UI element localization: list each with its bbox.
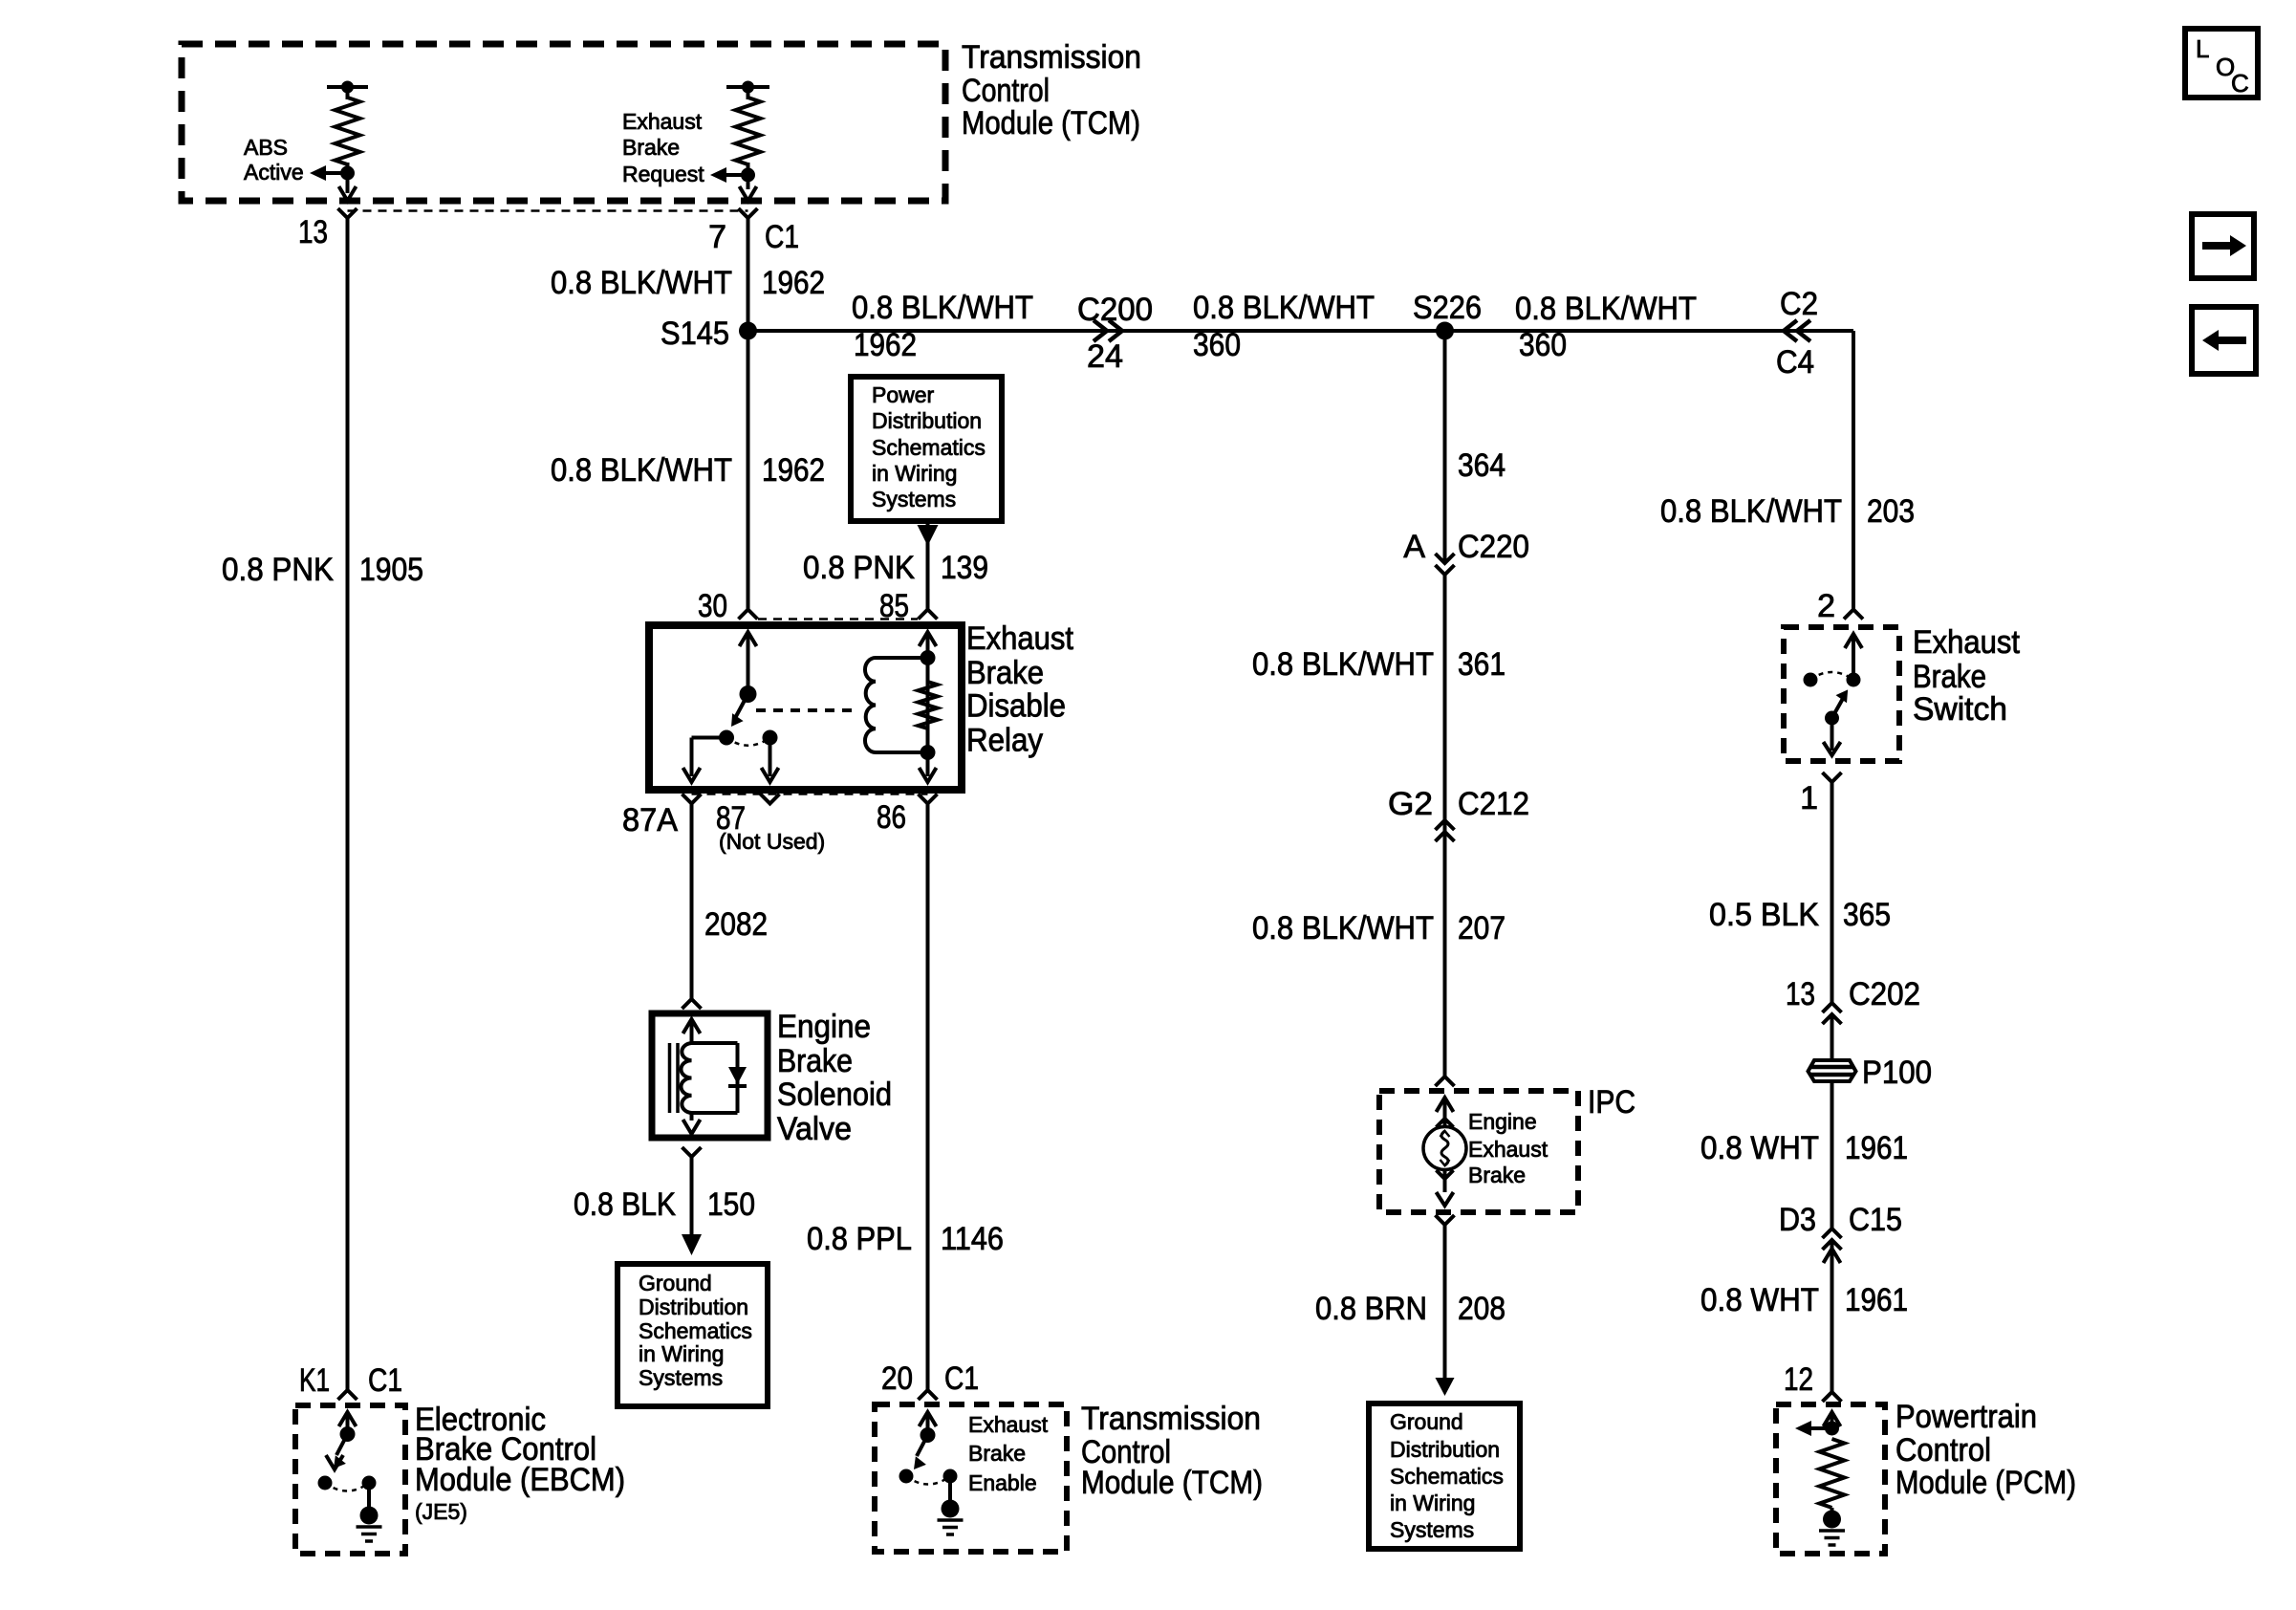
svg-text:Systems: Systems [872, 487, 956, 511]
svg-text:0.8 PNK: 0.8 PNK [803, 550, 915, 586]
svg-text:150: 150 [707, 1186, 755, 1223]
svg-text:208: 208 [1458, 1291, 1505, 1327]
svg-text:360: 360 [1519, 327, 1567, 363]
svg-text:S145: S145 [661, 315, 729, 352]
svg-text:Brake: Brake [622, 135, 680, 160]
svg-text:ABS: ABS [244, 135, 288, 160]
svg-text:364: 364 [1458, 447, 1505, 484]
svg-text:1962: 1962 [762, 452, 825, 489]
svg-text:Powertrain: Powertrain [1895, 1399, 2037, 1435]
svg-text:207: 207 [1458, 910, 1505, 946]
svg-text:A: A [1403, 529, 1425, 565]
svg-text:Brake: Brake [1913, 659, 1986, 695]
svg-text:0.8 BLK/WHT: 0.8 BLK/WHT [1515, 291, 1697, 327]
svg-text:Module (PCM): Module (PCM) [1895, 1465, 2076, 1501]
svg-text:Schematics: Schematics [1390, 1464, 1504, 1489]
svg-text:0.8 BLK/WHT: 0.8 BLK/WHT [1660, 493, 1842, 530]
svg-text:C4: C4 [1776, 344, 1814, 381]
svg-text:24: 24 [1087, 338, 1123, 375]
svg-text:(JE5): (JE5) [415, 1499, 467, 1524]
svg-text:Enable: Enable [968, 1470, 1037, 1495]
svg-text:0.8 WHT: 0.8 WHT [1700, 1130, 1819, 1166]
svg-text:Systems: Systems [639, 1365, 723, 1390]
svg-text:Brake: Brake [1468, 1163, 1526, 1187]
svg-text:Ground: Ground [1390, 1409, 1463, 1434]
svg-text:C1: C1 [368, 1362, 402, 1399]
svg-text:Control: Control [1895, 1432, 1991, 1469]
svg-text:139: 139 [941, 550, 988, 586]
svg-text:1962: 1962 [854, 327, 917, 363]
svg-text:0.8 BLK/WHT: 0.8 BLK/WHT [551, 265, 732, 301]
svg-text:C212: C212 [1458, 786, 1529, 822]
svg-text:Distribution: Distribution [1390, 1437, 1500, 1462]
svg-text:Systems: Systems [1390, 1517, 1474, 1542]
svg-text:K1: K1 [299, 1362, 330, 1399]
svg-text:0.8 PPL: 0.8 PPL [807, 1221, 912, 1257]
svg-text:1962: 1962 [762, 265, 825, 301]
svg-text:C220: C220 [1458, 529, 1529, 565]
svg-text:Active: Active [244, 160, 304, 185]
svg-text:0.8 BLK/WHT: 0.8 BLK/WHT [551, 452, 732, 489]
svg-text:IPC: IPC [1588, 1084, 1635, 1120]
svg-text:S226: S226 [1413, 290, 1482, 326]
svg-text:1961: 1961 [1845, 1130, 1908, 1166]
svg-text:0.8 BLK/WHT: 0.8 BLK/WHT [1193, 290, 1375, 326]
svg-text:0.8 BLK/WHT: 0.8 BLK/WHT [1252, 910, 1434, 946]
svg-text:Module (TCM): Module (TCM) [962, 105, 1140, 141]
svg-text:C15: C15 [1849, 1202, 1902, 1238]
svg-text:Brake: Brake [968, 1441, 1026, 1466]
svg-text:Exhaust: Exhaust [968, 1412, 1049, 1437]
svg-text:13: 13 [1786, 976, 1815, 1012]
svg-text:12: 12 [1784, 1361, 1813, 1398]
svg-text:0.8 PNK: 0.8 PNK [222, 552, 334, 588]
svg-text:Exhaust: Exhaust [1468, 1137, 1549, 1162]
svg-text:Engine: Engine [1468, 1109, 1537, 1134]
svg-text:13: 13 [298, 214, 328, 250]
svg-text:Brake: Brake [777, 1043, 853, 1079]
svg-text:1961: 1961 [1845, 1282, 1908, 1318]
svg-text:Module (TCM): Module (TCM) [1081, 1465, 1263, 1501]
svg-text:Switch: Switch [1913, 691, 2007, 728]
svg-text:P100: P100 [1862, 1055, 1932, 1091]
svg-text:1: 1 [1800, 780, 1818, 816]
svg-text:Distribution: Distribution [872, 408, 982, 433]
svg-text:Disable: Disable [966, 688, 1066, 725]
svg-text:in Wiring: in Wiring [639, 1341, 724, 1366]
svg-text:L: L [2196, 34, 2209, 63]
svg-text:0.5 BLK: 0.5 BLK [1709, 897, 1819, 933]
svg-text:C: C [2231, 69, 2249, 98]
svg-text:1905: 1905 [359, 552, 423, 588]
svg-text:Engine: Engine [777, 1009, 871, 1045]
svg-text:(Not Used): (Not Used) [719, 829, 825, 854]
svg-text:0.8 WHT: 0.8 WHT [1700, 1282, 1819, 1318]
svg-text:2: 2 [1817, 588, 1835, 624]
svg-text:Solenoid: Solenoid [777, 1077, 892, 1113]
svg-text:86: 86 [877, 799, 906, 836]
svg-text:0.8 BLK: 0.8 BLK [574, 1186, 676, 1223]
svg-text:C2: C2 [1780, 286, 1818, 322]
svg-text:C1: C1 [944, 1360, 979, 1397]
svg-text:203: 203 [1867, 493, 1915, 530]
svg-text:30: 30 [698, 588, 727, 624]
svg-text:2082: 2082 [704, 906, 768, 943]
svg-text:Ground: Ground [639, 1271, 712, 1295]
svg-text:Transmission: Transmission [962, 39, 1141, 76]
svg-text:Schematics: Schematics [872, 435, 986, 460]
svg-text:Relay: Relay [966, 723, 1043, 759]
svg-text:360: 360 [1193, 327, 1241, 363]
svg-text:C1: C1 [765, 219, 799, 255]
svg-text:Control: Control [962, 73, 1050, 109]
svg-text:Distribution: Distribution [639, 1295, 748, 1319]
svg-text:Exhaust: Exhaust [966, 620, 1073, 657]
svg-text:0.8 BLK/WHT: 0.8 BLK/WHT [852, 290, 1033, 326]
svg-text:in Wiring: in Wiring [872, 461, 957, 486]
svg-text:87A: 87A [622, 802, 678, 838]
svg-text:7: 7 [708, 219, 726, 255]
svg-text:Request: Request [622, 162, 704, 186]
svg-text:Power: Power [872, 382, 935, 407]
svg-text:C202: C202 [1849, 976, 1920, 1012]
svg-text:Module (EBCM): Module (EBCM) [415, 1462, 625, 1498]
svg-text:365: 365 [1843, 897, 1891, 933]
svg-text:20: 20 [881, 1360, 913, 1397]
svg-text:Transmission: Transmission [1081, 1401, 1261, 1437]
svg-text:Exhaust: Exhaust [1913, 624, 2020, 661]
svg-text:Exhaust: Exhaust [622, 109, 703, 134]
svg-text:Brake: Brake [966, 655, 1044, 691]
svg-text:Valve: Valve [777, 1111, 852, 1147]
svg-text:D3: D3 [1779, 1202, 1816, 1238]
svg-text:0.8 BRN: 0.8 BRN [1315, 1291, 1427, 1327]
svg-text:361: 361 [1458, 646, 1505, 683]
svg-text:1146: 1146 [941, 1221, 1004, 1257]
svg-text:in Wiring: in Wiring [1390, 1490, 1475, 1515]
svg-text:Schematics: Schematics [639, 1318, 752, 1343]
svg-text:G2: G2 [1388, 786, 1433, 822]
svg-text:0.8 BLK/WHT: 0.8 BLK/WHT [1252, 646, 1434, 683]
